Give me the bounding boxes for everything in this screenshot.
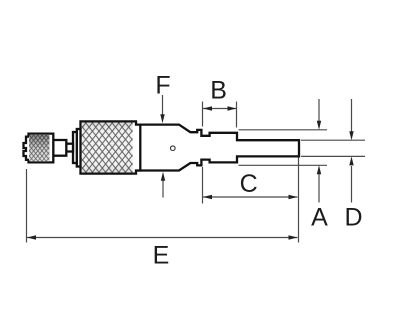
svg-text:B: B bbox=[210, 77, 227, 105]
svg-text:A: A bbox=[311, 204, 328, 232]
svg-text:C: C bbox=[240, 170, 258, 198]
svg-text:F: F bbox=[155, 72, 170, 100]
svg-text:D: D bbox=[344, 204, 362, 232]
svg-text:E: E bbox=[153, 242, 170, 270]
